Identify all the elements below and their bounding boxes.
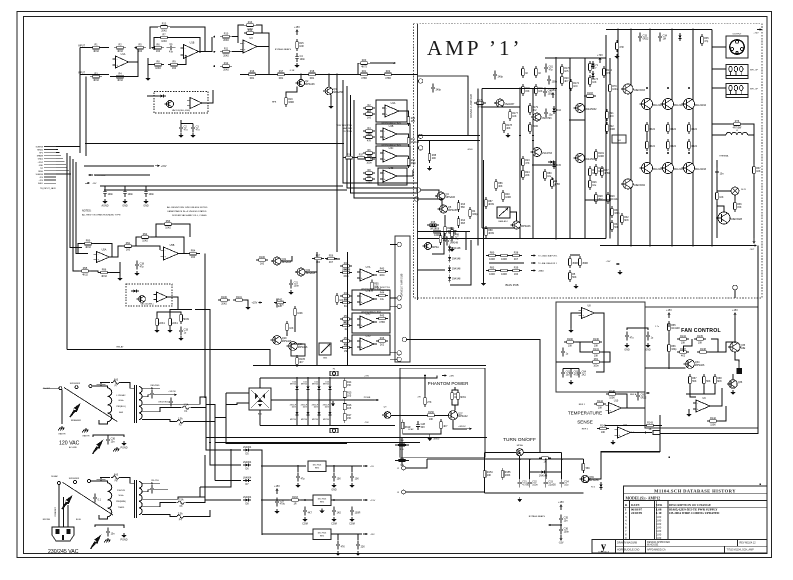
svg-text:EARTH: EARTH xyxy=(59,433,66,436)
title tick mark2 xyxy=(760,484,761,485)
block pin circle xyxy=(418,146,422,150)
svg-text:D45: D45 xyxy=(556,164,561,167)
transistor Q27 xyxy=(513,221,521,229)
svg-text:1K: 1K xyxy=(538,72,541,75)
capacitor C62 xyxy=(545,109,547,113)
svg-text:2SC4793: 2SC4793 xyxy=(542,152,553,155)
svg-text:0R22: 0R22 xyxy=(649,128,655,131)
wire opto B to psu xyxy=(195,309,210,442)
resistor R182 xyxy=(595,164,597,167)
wire U3 in stubs xyxy=(232,51,243,53)
wire drive out 1 xyxy=(399,111,409,114)
title strip col rev xyxy=(737,540,739,547)
svg-text:10K: 10K xyxy=(598,407,603,410)
capacitor C50 xyxy=(297,473,299,477)
wire t1 tap4 xyxy=(142,408,181,412)
svg-text:R130: R130 xyxy=(593,338,599,341)
wire stair A1 xyxy=(343,80,417,183)
switch SW1 lever xyxy=(64,388,117,422)
svg-text:R183: R183 xyxy=(587,92,593,95)
resistor R171 xyxy=(589,61,591,64)
svg-text:-: - xyxy=(610,404,611,407)
transistor Q12 xyxy=(576,104,585,113)
ground gnd32 xyxy=(297,483,299,485)
svg-text:PRI(BLU): PRI(BLU) xyxy=(116,406,126,408)
svg-text:10u: 10u xyxy=(547,175,552,178)
resistor R148 xyxy=(457,390,459,393)
svg-text:TB_INPUT_JACK: TB_INPUT_JACK xyxy=(40,187,57,190)
svg-text:MR754: MR754 xyxy=(290,419,296,421)
wire mid bus xyxy=(417,238,606,240)
wire top rail to phantom xyxy=(345,375,437,377)
wire fb2 xyxy=(136,237,139,246)
resistor R114 xyxy=(340,302,343,304)
wire pair to q37 xyxy=(454,405,456,411)
ground gnd38 xyxy=(351,517,353,519)
wire Q3 e xyxy=(330,95,332,104)
wire block B stubs xyxy=(390,244,397,246)
svg-text:R190: R190 xyxy=(567,338,573,341)
svg-text:-70V: -70V xyxy=(364,422,369,424)
capacitor C7 xyxy=(451,233,453,237)
wire bus v1 xyxy=(66,153,68,349)
svg-text:1K0: 1K0 xyxy=(191,256,196,259)
relay box K1 xyxy=(291,344,305,356)
wire chA lower rail xyxy=(86,143,343,145)
resistor R91 xyxy=(122,245,125,247)
connector XLR circle xyxy=(730,40,744,54)
capacitor C61 xyxy=(545,64,547,68)
diode D18 xyxy=(600,482,602,490)
resistor R112 xyxy=(340,272,343,274)
wire sw1 c xyxy=(92,385,101,388)
svg-text:AGND: AGND xyxy=(102,205,109,208)
svg-text:10K: 10K xyxy=(719,196,724,199)
capacitor C54 xyxy=(304,507,306,511)
svg-text:TEMPERATURE: TEMPERATURE xyxy=(568,411,602,416)
wire r97 r98 top xyxy=(157,312,181,316)
svg-text:1.5A: 1.5A xyxy=(178,418,183,421)
wire drive out 2 xyxy=(397,134,409,135)
svg-text:10R: 10R xyxy=(299,45,304,48)
ground gnd35 xyxy=(276,509,278,511)
svg-text:BREAKER: BREAKER xyxy=(71,419,81,422)
ground gnd43 xyxy=(451,247,453,249)
svg-text:R76: R76 xyxy=(735,120,740,123)
resistor R120 xyxy=(336,293,338,296)
output transistor Q21 xyxy=(663,99,674,110)
transistor Q10 xyxy=(496,99,504,107)
svg-text:56K: 56K xyxy=(706,380,711,383)
wire U1B out xyxy=(199,37,213,52)
wire stair P2 xyxy=(206,405,420,443)
resistor R119 xyxy=(371,280,373,283)
svg-text:R131: R131 xyxy=(593,348,599,351)
ground gnd10 xyxy=(124,199,126,201)
svg-text:ORG/ORG: ORG/ORG xyxy=(158,401,168,403)
wire fan w5 xyxy=(686,386,715,394)
wire sw1 a xyxy=(44,387,59,389)
svg-text:-: - xyxy=(244,42,245,45)
svg-text:1N4148: 1N4148 xyxy=(452,257,461,260)
wire b pre xyxy=(245,300,248,305)
wire fan net1 xyxy=(668,333,670,342)
svg-text:1K: 1K xyxy=(649,428,652,431)
svg-text:MR754: MR754 xyxy=(290,384,296,386)
transistor Q3 xyxy=(325,87,333,95)
svg-text:+70V: +70V xyxy=(753,33,759,35)
wire diode row xyxy=(530,471,562,473)
svg-text:R12: R12 xyxy=(224,62,229,65)
wire Q3 stub xyxy=(328,74,330,87)
svg-text:1K0: 1K0 xyxy=(156,50,161,53)
svg-text:100n: 100n xyxy=(366,162,372,165)
resistor R143 xyxy=(644,425,647,427)
title col line DATE xyxy=(654,501,656,540)
title strip col title xyxy=(724,546,726,553)
svg-text:4K7: 4K7 xyxy=(443,425,448,428)
wire VAS rail 556 xyxy=(555,58,557,239)
wire bus v2 xyxy=(70,156,82,247)
wire c38 net xyxy=(95,525,124,528)
svg-text:D20: D20 xyxy=(293,381,296,383)
wire f3 on xyxy=(186,497,205,503)
wire VAS rail 570 xyxy=(569,58,571,239)
junction dot xyxy=(214,65,216,67)
wire input A- drop xyxy=(85,77,87,156)
resistor R28 xyxy=(363,136,366,138)
transformer T1 primary xyxy=(108,388,112,422)
resistor R111 xyxy=(340,265,343,267)
wire pwr v478 xyxy=(477,89,479,246)
ground gnd13 xyxy=(119,276,121,278)
svg-text:MR754: MR754 xyxy=(312,384,318,386)
svg-text:TURN ON/OFF: TURN ON/OFF xyxy=(503,437,536,443)
wire bias right xyxy=(570,254,580,256)
transistor Q13 xyxy=(623,84,633,94)
wire r9 to u1b xyxy=(180,55,186,65)
transistor Q33 xyxy=(424,242,431,249)
op-amp U8 xyxy=(582,308,595,319)
wire bias b xyxy=(419,199,442,211)
output transistor Q22 xyxy=(684,99,695,110)
wire preamp vertical xyxy=(336,74,338,252)
wire U3 out xyxy=(257,47,269,75)
drive B box 3 xyxy=(352,313,390,333)
svg-text:56K: 56K xyxy=(461,206,466,209)
wire bias bus xyxy=(417,231,470,233)
svg-text:R16: R16 xyxy=(250,70,255,73)
wire sw1 gnd xyxy=(61,390,63,424)
wire top rail xyxy=(545,57,606,59)
junction dots rails xyxy=(519,135,521,137)
svg-text:R10: R10 xyxy=(224,32,229,35)
svg-text:R83: R83 xyxy=(490,266,495,269)
power -15V byp xyxy=(560,535,562,539)
svg-text:U4A: U4A xyxy=(391,102,396,105)
resistor R124 xyxy=(440,233,442,236)
svg-text:RING: RING xyxy=(38,171,43,173)
chassis arrow dark xyxy=(93,441,102,453)
wire bridge out bot xyxy=(259,410,261,425)
svg-text:REG: REG xyxy=(320,536,325,538)
wire u10 out xyxy=(622,407,646,409)
resistor R157 xyxy=(582,461,584,464)
resistor R33 out xyxy=(408,114,410,117)
wire f4 on xyxy=(185,510,210,517)
wire out bus drop xyxy=(660,246,758,434)
junction pw1 xyxy=(477,135,479,137)
svg-text:10K: 10K xyxy=(289,327,294,330)
svg-text:-: - xyxy=(361,271,362,274)
wire reg v215 xyxy=(214,443,216,481)
svg-text:1K0: 1K0 xyxy=(316,261,321,264)
resistor R95 xyxy=(79,270,82,272)
svg-text:475R: 475R xyxy=(379,321,385,324)
wire t2 tap1 xyxy=(142,482,160,484)
svg-text:15K: 15K xyxy=(347,417,352,420)
svg-text:20K0: 20K0 xyxy=(161,29,167,32)
svg-text:MR754: MR754 xyxy=(323,384,329,386)
svg-text:22K: 22K xyxy=(525,174,530,177)
regulator VR4 box xyxy=(313,495,331,506)
svg-text:GND2: GND2 xyxy=(38,159,43,161)
transistor Q36 xyxy=(729,380,737,388)
svg-text:DL25: DL25 xyxy=(741,189,747,191)
svg-text:1N4148: 1N4148 xyxy=(452,278,461,281)
svg-text:2.5A: 2.5A xyxy=(179,499,184,502)
svg-text:R21: R21 xyxy=(362,70,367,73)
resistor R190 xyxy=(564,341,567,343)
temp sense box xyxy=(556,302,645,392)
wire f2 on xyxy=(185,418,215,422)
capacitor C11 xyxy=(494,71,496,75)
svg-text:R163: R163 xyxy=(292,496,298,499)
diode D42 xyxy=(243,480,251,482)
resistor R42 xyxy=(427,224,430,226)
svg-text:R91: R91 xyxy=(126,242,131,245)
svg-text:M1 78L5: M1 78L5 xyxy=(313,464,322,466)
ground gnd16 xyxy=(180,336,182,338)
wire onoff bottom xyxy=(485,492,584,494)
chassis ground ch1 xyxy=(61,426,63,428)
diode D14 xyxy=(449,244,451,252)
resistor R22 xyxy=(382,73,385,75)
resistor R134 xyxy=(677,338,680,340)
svg-text:10K0: 10K0 xyxy=(165,227,171,230)
resistor R145 xyxy=(597,428,600,430)
drive B box 4 xyxy=(352,335,390,355)
svg-text:22K: 22K xyxy=(278,305,283,308)
title col line VER xyxy=(667,501,669,540)
resistor R12 xyxy=(220,65,223,67)
ground gnd18 xyxy=(290,290,292,292)
ground gnd42 xyxy=(507,133,509,135)
wire bias column xyxy=(483,245,485,281)
wire fan w7 xyxy=(684,339,692,352)
op-amp U5A xyxy=(97,252,110,263)
wire input A+ drop xyxy=(79,48,81,153)
ground gnd22 xyxy=(647,343,649,345)
wire u9 fb xyxy=(719,406,726,421)
wire col 545 xyxy=(545,459,547,479)
wire stairs v xyxy=(225,393,227,418)
wire phantom base row xyxy=(385,414,448,416)
resistor R93 xyxy=(162,223,165,225)
wire opto B out xyxy=(168,297,179,309)
svg-text:MPSA06: MPSA06 xyxy=(446,196,456,199)
svg-text:TO -BIA 1 BIA FOR 1: TO -BIA 1 BIA FOR 1 xyxy=(538,262,558,265)
svg-text:6K8: 6K8 xyxy=(344,305,349,308)
wire fb U1B b xyxy=(170,38,200,54)
ground gnd23 xyxy=(732,390,734,392)
svg-text:-15V: -15V xyxy=(92,183,97,185)
svg-text:-: - xyxy=(165,249,166,252)
capacitor C3 xyxy=(192,124,194,128)
svg-text:AC-HOT: AC-HOT xyxy=(43,387,51,390)
opto-isolator U2 dashed box xyxy=(154,92,208,114)
svg-text:R51: R51 xyxy=(344,315,349,318)
junction t1a xyxy=(151,387,153,389)
svg-text:OUTPUT: OUTPUT xyxy=(733,33,743,35)
svg-text:REF 1: REF 1 xyxy=(579,404,586,406)
connector speakon 1 pins xyxy=(729,66,732,71)
svg-text:47K: 47K xyxy=(525,162,530,165)
ground gnd1 xyxy=(147,76,149,78)
resistor R185 xyxy=(551,177,553,180)
svg-text:+5V: +5V xyxy=(370,466,374,468)
svg-text:R94: R94 xyxy=(191,249,196,252)
title bottom strip xyxy=(592,540,767,554)
svg-text:1K0: 1K0 xyxy=(573,85,578,88)
resistor R61 xyxy=(589,178,591,181)
svg-text:2K2: 2K2 xyxy=(454,233,459,236)
wire onoff mid xyxy=(427,458,583,460)
capacitor C22 xyxy=(562,369,564,373)
svg-text:R138: R138 xyxy=(700,348,706,351)
svg-text:DANEL!7 AMP.SUB: DANEL!7 AMP.SUB xyxy=(400,273,404,296)
svg-text:47p: 47p xyxy=(169,50,174,53)
junction dots bus xyxy=(630,245,632,247)
wire R19 link xyxy=(286,87,297,95)
resistor R38 xyxy=(429,151,431,154)
svg-text:100V: 100V xyxy=(325,407,330,409)
svg-text:DIVIDER VALS ARE VOLL, CLASS.: DIVIDER VALS ARE VOLL, CLASS. xyxy=(172,214,207,217)
svg-text:1K0: 1K0 xyxy=(514,273,519,276)
ground gnd5 xyxy=(330,104,332,106)
svg-text:1N4148: 1N4148 xyxy=(539,474,548,477)
ground gnd31 xyxy=(332,401,334,403)
connector XLR pin 1 xyxy=(736,40,739,43)
inductor L1 xyxy=(726,132,748,135)
ground gnd19 xyxy=(570,328,572,330)
wire phantom pair top xyxy=(452,389,458,392)
wire temp caps xyxy=(563,368,579,370)
ground gnd14 xyxy=(156,328,158,330)
svg-text:PRI(BRN): PRI(BRN) xyxy=(116,501,126,503)
svg-text:R93: R93 xyxy=(166,220,171,223)
svg-text:+15V: +15V xyxy=(252,302,258,305)
svg-text:100R: 100R xyxy=(501,258,507,261)
thermistor RT1 xyxy=(653,431,660,435)
svg-text:5K09: 5K09 xyxy=(183,318,189,321)
net arrow P15BB xyxy=(374,399,376,401)
wire onoff left rail xyxy=(484,453,486,493)
svg-text:R50: R50 xyxy=(344,298,349,301)
resistor R183 xyxy=(584,95,587,97)
svg-text:475R: 475R xyxy=(604,172,610,175)
svg-text:D21: D21 xyxy=(304,381,307,383)
net arrow +15V mid xyxy=(155,165,157,167)
svg-text:10K: 10K xyxy=(374,286,379,289)
svg-text:6K8: 6K8 xyxy=(461,222,466,225)
resistor R132 xyxy=(590,361,593,363)
wire gnd stub xyxy=(147,58,149,76)
svg-text:10n: 10n xyxy=(111,532,116,535)
svg-text:THERMAL: THERMAL xyxy=(719,155,729,158)
svg-text:MPSA06: MPSA06 xyxy=(521,225,531,228)
svg-text:47u: 47u xyxy=(630,336,635,339)
svg-text:10n: 10n xyxy=(564,519,569,522)
wire reg1 feed xyxy=(262,465,306,467)
svg-text:4K32: 4K32 xyxy=(85,246,91,249)
output transistor Q20 xyxy=(642,99,653,110)
net arrow -BIAS xyxy=(531,270,533,272)
svg-text:R58: R58 xyxy=(435,227,440,230)
resistor R96 xyxy=(98,272,101,274)
svg-text:56K: 56K xyxy=(572,276,577,279)
ground gnd37 xyxy=(333,517,335,519)
wire t2 tap2 xyxy=(142,490,168,492)
wire bot rail ext xyxy=(345,424,395,426)
wire pw tail xyxy=(417,231,470,233)
ground gnd24 xyxy=(688,412,690,414)
LED DS2 xyxy=(737,368,743,374)
resistor R146 xyxy=(606,393,609,395)
svg-text:4K32: 4K32 xyxy=(93,79,99,82)
wire fan to run xyxy=(659,415,661,428)
wire f1 on xyxy=(191,405,206,408)
svg-text:2SA1837: 2SA1837 xyxy=(505,103,516,106)
wire fuse to xfmr xyxy=(121,383,134,389)
wire temp1 xyxy=(570,316,572,328)
resistor R194 xyxy=(701,34,703,37)
wire j2a xyxy=(406,459,428,468)
capacitor C33 xyxy=(545,479,547,483)
svg-text:COM: COM xyxy=(302,523,308,526)
svg-text:TO +BIA 1 BIA FOR 1: TO +BIA 1 BIA FOR 1 xyxy=(538,255,558,258)
resistor R98 xyxy=(169,316,171,319)
connector J-OUT box xyxy=(726,36,748,58)
svg-text:R47: R47 xyxy=(344,262,349,265)
svg-text:MJE15032: MJE15032 xyxy=(634,184,646,187)
svg-text:U5A: U5A xyxy=(102,249,107,252)
diode D41 xyxy=(243,464,251,466)
resistor R50 xyxy=(522,66,524,69)
svg-text:MPSA56: MPSA56 xyxy=(298,346,308,349)
svg-text:+BIAS: +BIAS xyxy=(538,270,544,273)
svg-text:U5B: U5B xyxy=(170,244,175,247)
junction dot r56 xyxy=(135,47,137,49)
ground gnd21 xyxy=(626,343,628,345)
svg-text:TRIM THROTTLE: TRIM THROTTLE xyxy=(336,125,353,127)
svg-text:15K: 15K xyxy=(337,477,342,480)
trimpot VR1 xyxy=(497,207,510,218)
svg-text:BYPASS BEATS: BYPASS BEATS xyxy=(275,48,292,51)
svg-text:R22: R22 xyxy=(386,70,391,73)
svg-text:HORNBUCKLE.CAD: HORNBUCKLE.CAD xyxy=(617,549,640,552)
resistor R150 xyxy=(425,414,428,416)
